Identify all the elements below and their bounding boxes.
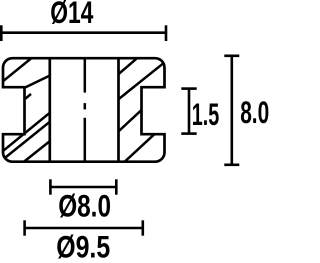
dimension Ø9.5 (groove diameter, bottom) <box>25 220 143 235</box>
hatch line L1 <box>3 59 31 82</box>
dimension 1.5 (groove width, right of body) <box>181 89 196 134</box>
left tick <box>23 220 26 235</box>
hatch line L2 <box>26 75 51 87</box>
grommet body outline <box>3 58 165 162</box>
svg-text:1.5: 1.5 <box>192 96 220 132</box>
hatch line L4 <box>3 112 51 151</box>
hatch right block <box>118 59 164 163</box>
svg-text:Ø9.5: Ø9.5 <box>56 229 110 263</box>
hatch line R1 <box>118 59 137 75</box>
right tick <box>165 25 168 41</box>
dim line <box>188 89 191 134</box>
dim line <box>25 227 143 230</box>
hole right edge <box>117 58 120 162</box>
dim line <box>231 56 234 165</box>
right tick <box>115 179 118 194</box>
dim line <box>1 31 166 34</box>
svg-text:Ø14: Ø14 <box>50 0 94 30</box>
hatch left block <box>3 59 51 163</box>
hatch line R2 <box>118 63 164 99</box>
left tick <box>49 179 52 194</box>
svg-text:Ø8.0: Ø8.0 <box>58 187 111 223</box>
dimension Ø8.0 (hole diameter, below body) <box>50 179 116 194</box>
hatch line L6 <box>24 141 51 162</box>
top tick <box>181 87 196 90</box>
hatch line L3 (stub on notch wall) <box>25 94 31 99</box>
top tick <box>224 54 239 57</box>
center line <box>84 59 87 161</box>
hatch line R4 <box>124 133 156 162</box>
dimension Ø14 (top) <box>1 25 166 41</box>
dimension 8.0 (overall height, far right) <box>224 56 239 165</box>
dim line <box>50 186 116 189</box>
hole left edge <box>48 58 51 162</box>
right tick <box>142 220 145 235</box>
left tick <box>0 25 3 41</box>
hatch line R3 <box>118 110 142 132</box>
bottom tick <box>181 132 196 135</box>
bottom tick <box>224 164 239 167</box>
hatch line L5 <box>4 121 51 158</box>
svg-text:8.0: 8.0 <box>240 94 269 130</box>
